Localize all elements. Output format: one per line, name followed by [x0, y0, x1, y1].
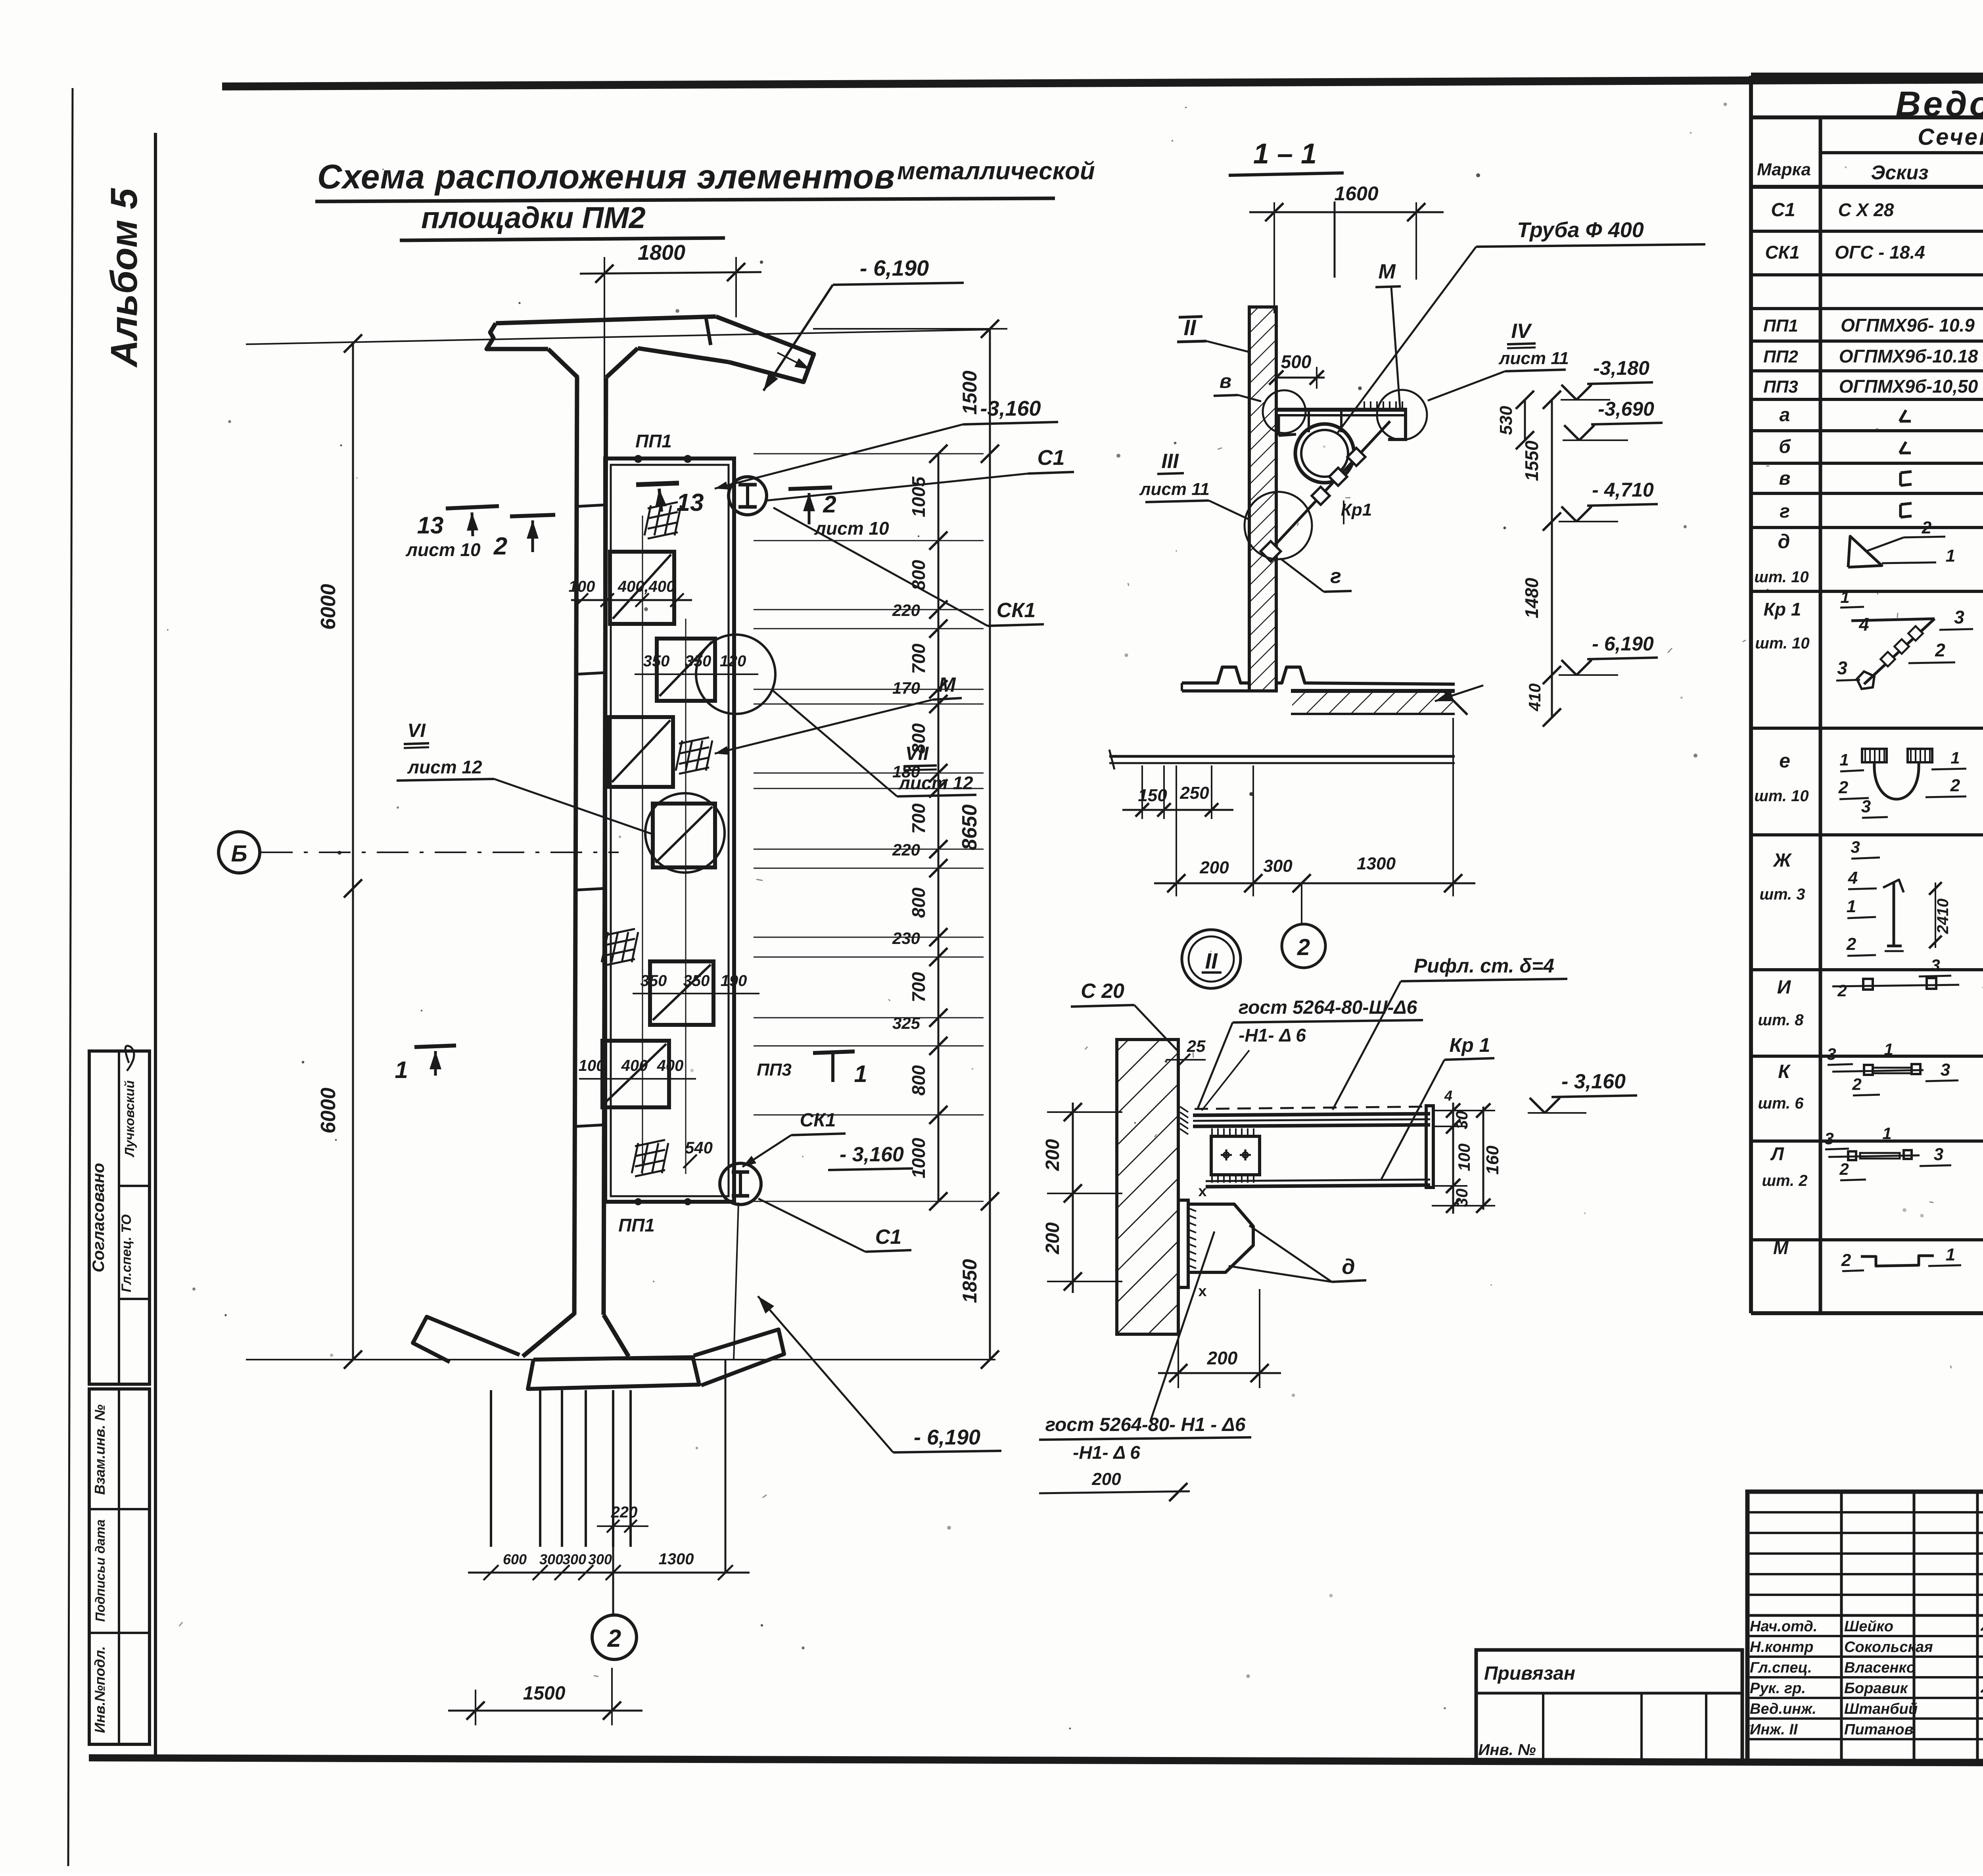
svg-text:Н.контр: Н.контр: [1750, 1639, 1813, 1655]
svg-text:1: 1: [395, 1057, 408, 1083]
beam flange below: [1206, 1180, 1430, 1181]
right outer dim chain 1500/8650/1850: [989, 329, 991, 1360]
svg-text:Власенко: Власенко: [1844, 1659, 1916, 1676]
extension from platform right edge to base: [734, 1203, 738, 1360]
section mark 2 (right, list 10): [788, 487, 832, 489]
svg-text:300: 300: [539, 1551, 563, 1567]
edge element right: [1404, 410, 1407, 440]
main stamp outline: [1747, 1492, 1983, 1761]
svg-text:И: И: [1777, 977, 1791, 998]
svg-text:2: 2: [1935, 640, 1945, 660]
beam end plate: [1426, 1106, 1433, 1187]
sheet outer edge line (left margin fold mark): [68, 88, 73, 1866]
svg-text:3: 3: [1824, 1129, 1833, 1148]
svg-text:Питанов: Питанов: [1844, 1721, 1914, 1738]
section mark 13 (inside plan): [636, 483, 679, 485]
svg-text:1300: 1300: [659, 1550, 694, 1568]
svg-text:190: 190: [721, 972, 747, 990]
dim 1500 bottom: [475, 1690, 476, 1725]
section dim chains right: [1524, 400, 1526, 440]
svg-text:350: 350: [683, 972, 710, 990]
svg-text:СК1: СК1: [1765, 242, 1799, 263]
svg-text:III: III: [1161, 450, 1179, 473]
left stamp: Soglasovano box: [89, 1051, 150, 1384]
svg-text:шт. 10: шт. 10: [1754, 787, 1808, 805]
svg-text:СК1: СК1: [800, 1110, 836, 1131]
svg-text:гост 5264-80- Н1 - Δ6: гост 5264-80- Н1 - Δ6: [1045, 1414, 1246, 1435]
svg-text:100: 100: [569, 578, 595, 595]
svg-text:160: 160: [1483, 1145, 1502, 1175]
svg-text:500: 500: [1281, 351, 1312, 372]
opening square 5: [650, 961, 713, 1025]
svg-text:120: 120: [720, 652, 746, 670]
svg-text:350: 350: [641, 972, 667, 990]
svg-text:600: 600: [503, 1551, 527, 1567]
stem splice marks: [576, 505, 605, 506]
svg-text:Альбом 5: Альбом 5: [103, 188, 145, 368]
signature rows: [1747, 1635, 1983, 1637]
pipe circle: [1295, 424, 1354, 483]
svg-text:350: 350: [643, 652, 670, 670]
dims 150 250: [1141, 765, 1143, 819]
left dim 6000: [352, 343, 354, 1360]
svg-text:1480: 1480: [1521, 577, 1542, 618]
svg-text:1: 1: [1882, 1124, 1891, 1143]
opening square 1: [610, 552, 674, 624]
svg-text:400,400: 400,400: [618, 578, 675, 595]
svg-text:2: 2: [1852, 1075, 1861, 1093]
svg-text:-3,180: -3,180: [1593, 357, 1649, 379]
svg-text:2: 2: [1922, 518, 1932, 537]
svg-text:Кр1: Кр1: [1341, 500, 1372, 520]
svg-text:ПП3: ПП3: [757, 1060, 792, 1080]
svg-text:ОГПМХ9б-10,50: ОГПМХ9б-10,50: [1839, 376, 1978, 397]
left dims 200/200: [1072, 1103, 1074, 1293]
svg-text:200: 200: [1199, 858, 1229, 877]
scan speckles: [1690, 132, 1692, 134]
svg-text:800: 800: [908, 560, 929, 590]
svg-text:2: 2: [1837, 981, 1847, 1000]
svg-text:М: М: [1773, 1237, 1789, 1258]
svg-text:1850: 1850: [959, 1259, 981, 1303]
svg-text:ПП1: ПП1: [1763, 316, 1798, 336]
svg-text:1: 1: [854, 1061, 867, 1087]
svg-text:800: 800: [908, 1065, 929, 1095]
svg-text:К: К: [1778, 1061, 1791, 1082]
svg-text:ПП1: ПП1: [635, 431, 672, 451]
svg-text:шт. 10: шт. 10: [1755, 635, 1809, 652]
svg-text:Согласовано: Согласовано: [89, 1163, 107, 1272]
svg-text:3: 3: [1931, 956, 1940, 974]
svg-text:4: 4: [1858, 614, 1869, 635]
svg-text:- 6,190: - 6,190: [1592, 633, 1654, 655]
svg-text:2: 2: [493, 533, 507, 560]
svg-text:800: 800: [908, 723, 929, 754]
svg-text:Лучковский: Лучковский: [122, 1080, 137, 1157]
svg-text:металлической: металлической: [897, 157, 1095, 185]
section mark 13 (left, list 10): [446, 506, 499, 508]
floor profile at wall base: [1182, 667, 1249, 683]
svg-text:2: 2: [1846, 934, 1856, 954]
svg-text:170: 170: [892, 679, 920, 697]
svg-text:лист 11: лист 11: [1498, 349, 1569, 368]
sketch row Zh (column): [1893, 882, 1895, 946]
svg-text:Кр 1: Кр 1: [1450, 1034, 1490, 1056]
svg-text:Схема расположения элементов: Схема расположения элементов: [317, 158, 895, 196]
sketch row K: [1832, 1070, 1924, 1072]
svg-text:Боравик: Боравик: [1844, 1680, 1908, 1697]
diagonal tie rod Kr1: [1269, 421, 1390, 551]
svg-text:325: 325: [892, 1014, 921, 1032]
sketch row Kr1: [1851, 619, 1935, 621]
svg-text:-Н1- Δ 6: -Н1- Δ 6: [1239, 1025, 1306, 1045]
right dims 30/100/30 and 160: [1452, 1103, 1454, 1214]
svg-text:220: 220: [892, 601, 920, 620]
svg-text:200: 200: [1091, 1469, 1121, 1489]
dim 1800: [604, 257, 605, 460]
svg-text:- 6,190: - 6,190: [914, 1425, 980, 1449]
svg-text:Труба Ф 400: Труба Ф 400: [1517, 218, 1644, 242]
svg-text:г: г: [1780, 501, 1790, 522]
svg-text:2: 2: [1839, 1160, 1849, 1178]
stamp verticals: [1840, 1492, 1843, 1761]
svg-text:530: 530: [1496, 406, 1516, 435]
svg-text:150: 150: [1138, 786, 1167, 805]
svg-text:6000: 6000: [317, 1088, 340, 1134]
svg-text:Кр 1: Кр 1: [1764, 599, 1801, 620]
svg-text:1: 1: [1839, 750, 1849, 769]
svg-text:лист 12: лист 12: [407, 757, 482, 777]
detail title circle II: [1182, 930, 1241, 988]
axis circle 2: [612, 1547, 614, 1615]
column head (hammerhead roof): [496, 317, 716, 323]
svg-text:шт. 2: шт. 2: [1762, 1172, 1807, 1189]
svg-text:площадки ПМ2: площадки ПМ2: [421, 201, 646, 235]
base pile lines: [490, 1390, 492, 1547]
platform plan rectangle PP1: [605, 458, 734, 1202]
wall bracket with bolts: [1211, 1136, 1260, 1175]
svg-text:3: 3: [1851, 838, 1860, 856]
sketch row L: [1828, 1155, 1920, 1157]
svg-text:1500: 1500: [959, 370, 981, 414]
svg-text:Эскиз: Эскиз: [1871, 161, 1928, 184]
sketch row d: [1848, 536, 1882, 567]
detail circles in section: [1263, 390, 1306, 433]
svg-text:II: II: [1183, 315, 1197, 340]
ground band below: [1109, 755, 1455, 758]
svg-text:540: 540: [685, 1138, 713, 1157]
svg-text:Гл.спец. ТО: Гл.спец. ТО: [119, 1214, 134, 1292]
svg-text:Взам.инв. №: Взам.инв. №: [92, 1404, 108, 1495]
svg-text:1500: 1500: [523, 1683, 566, 1704]
svg-text:Гл.спец.: Гл.спец.: [1750, 1659, 1812, 1676]
svg-text:25: 25: [1187, 1037, 1206, 1055]
column stem: [574, 377, 577, 1315]
svg-text:ОГПМХ9б-10.18: ОГПМХ9б-10.18: [1839, 346, 1978, 366]
channel glyphs rows v/g: [1899, 473, 1902, 485]
svg-text:400: 400: [657, 1057, 684, 1074]
svg-text:М: М: [1378, 260, 1396, 283]
svg-text:Марка: Марка: [1757, 160, 1811, 179]
svg-text:лист 10: лист 10: [405, 539, 481, 560]
svg-text:Штанбий: Штанбий: [1844, 1701, 1918, 1717]
sketch row M: [1861, 1256, 1934, 1266]
svg-text:100: 100: [1455, 1143, 1473, 1171]
svg-text:3: 3: [1827, 1045, 1836, 1063]
svg-text:С1: С1: [1037, 446, 1064, 470]
svg-text:3: 3: [1837, 658, 1847, 678]
svg-text:1: 1: [1840, 588, 1849, 606]
dims 200 300 1300 below section: [1176, 765, 1177, 896]
svg-text:13: 13: [417, 512, 444, 539]
svg-text:Сокольская: Сокольская: [1844, 1639, 1933, 1655]
floor slab right of wall (hatched): [1291, 689, 1455, 693]
svg-text:Инж. II: Инж. II: [1750, 1721, 1798, 1738]
svg-text:С1: С1: [875, 1226, 901, 1249]
svg-text:х: х: [1198, 1183, 1206, 1200]
svg-text:Рифл. ст. δ=4: Рифл. ст. δ=4: [1414, 955, 1554, 977]
svg-text:х: х: [1198, 1283, 1206, 1300]
svg-text:в: в: [1779, 468, 1791, 489]
svg-text:- 6,190: - 6,190: [860, 255, 929, 280]
bottom dim chain 600 300 300 300 1300: [468, 1572, 750, 1574]
opening square 3: [609, 717, 673, 787]
svg-text:шт. 10: шт. 10: [1754, 568, 1808, 586]
svg-text:- 3,160: - 3,160: [840, 1143, 904, 1166]
svg-text:3: 3: [1941, 1060, 1950, 1080]
svg-text:1 – 1: 1 – 1: [1253, 138, 1317, 170]
svg-text:200: 200: [1042, 1139, 1063, 1171]
connection circle C1 bottom: [720, 1163, 761, 1205]
section mark 2 (left): [510, 515, 555, 516]
svg-text:1300: 1300: [1357, 854, 1396, 873]
svg-text:220: 220: [611, 1504, 638, 1521]
svg-text:д: д: [1778, 530, 1790, 552]
svg-text:800: 800: [908, 887, 929, 918]
section mark 1 (right bottom): [813, 1051, 855, 1053]
svg-text:шт. 6: шт. 6: [1758, 1095, 1804, 1112]
svg-text:180: 180: [892, 762, 920, 781]
svg-text:2: 2: [1838, 778, 1849, 797]
platform plate: [1276, 408, 1407, 412]
grating ticks: [1364, 401, 1365, 410]
svg-text:Л: Л: [1770, 1143, 1784, 1164]
svg-text:Б: Б: [231, 841, 247, 867]
lower angle bracket: [1178, 1200, 1188, 1287]
bottom dim 200: [1178, 1334, 1179, 1388]
connection circle C1 top: [729, 477, 767, 515]
platform plate stack: [1195, 1107, 1430, 1109]
svg-text:200: 200: [1207, 1348, 1238, 1368]
opening square 4 with detail circle VI: [653, 804, 715, 867]
left stamp: inventory box: [89, 1389, 150, 1744]
opening square 6: [602, 1041, 669, 1107]
table outer borders: [1751, 73, 1983, 79]
svg-text:1: 1: [1950, 748, 1960, 767]
svg-text:С 20: С 20: [1081, 980, 1124, 1003]
svg-text:- 3,160: - 3,160: [1561, 1070, 1626, 1093]
svg-text:1005: 1005: [908, 476, 929, 517]
svg-text:4: 4: [1444, 1088, 1452, 1104]
svg-text:Рук. гр.: Рук. гр.: [1750, 1680, 1806, 1697]
svg-text:1: 1: [1946, 546, 1955, 566]
svg-text:IV: IV: [1511, 320, 1532, 343]
section mark 1 (left bottom): [414, 1045, 456, 1047]
column base funnel: [523, 1314, 574, 1356]
concrete wall (hatched): [1249, 307, 1276, 691]
plan centerlines: [642, 516, 643, 1174]
svg-text:С Х 28: С Х 28: [1838, 199, 1894, 220]
svg-text:ПП2: ПП2: [1763, 347, 1798, 366]
svg-text:Подписьи дата: Подписьи дата: [93, 1519, 107, 1622]
svg-text:Шейко: Шейко: [1844, 1618, 1893, 1635]
svg-text:2: 2: [1950, 776, 1960, 795]
svg-text:300: 300: [588, 1551, 612, 1567]
svg-text:1550: 1550: [1521, 440, 1542, 481]
svg-text:4: 4: [1848, 868, 1858, 888]
svg-text:ПП1: ПП1: [618, 1215, 655, 1235]
svg-text:Привязан: Привязан: [1484, 1663, 1575, 1684]
svg-text:а: а: [1780, 405, 1790, 426]
svg-text:1: 1: [1884, 1040, 1893, 1059]
header row lines: [1820, 151, 1983, 154]
pipe stand: [1308, 410, 1310, 432]
svg-text:СК1: СК1: [997, 599, 1036, 622]
svg-text:Инв. №: Инв. №: [1478, 1741, 1536, 1759]
svg-text:2: 2: [607, 1625, 621, 1652]
svg-text:VI: VI: [407, 720, 426, 741]
svg-text:700: 700: [908, 972, 929, 1002]
svg-text:Ж: Ж: [1772, 850, 1792, 871]
svg-text:13: 13: [677, 489, 704, 516]
svg-text:Вед.инж.: Вед.инж.: [1750, 1701, 1816, 1717]
svg-text:ОГС - 18.4: ОГС - 18.4: [1835, 242, 1925, 263]
svg-text:II: II: [1205, 948, 1218, 973]
svg-text:700: 700: [908, 803, 929, 834]
svg-text:400: 400: [621, 1057, 648, 1074]
svg-text:1: 1: [1847, 897, 1856, 916]
svg-text:700: 700: [908, 643, 929, 674]
svg-text:С1: С1: [1771, 199, 1795, 221]
drawing frame border: [222, 77, 1983, 86]
svg-text:8650: 8650: [958, 804, 981, 850]
angle bracket at wall under plate: [1277, 415, 1280, 435]
svg-text:220: 220: [892, 840, 920, 859]
table group row lines: [1751, 230, 1983, 233]
svg-text:б: б: [1779, 436, 1791, 457]
svg-text:2: 2: [1841, 1251, 1851, 1270]
base level extension line: [246, 1359, 995, 1360]
svg-text:100: 100: [579, 1057, 605, 1074]
svg-text:3: 3: [1954, 607, 1964, 627]
top level line through head: [246, 330, 990, 344]
svg-text:300: 300: [562, 1551, 586, 1567]
svg-text:1600: 1600: [1334, 182, 1378, 205]
svg-text:410: 410: [1525, 683, 1544, 712]
svg-text:шт. 3: шт. 3: [1759, 886, 1805, 903]
svg-text:-3,690: -3,690: [1598, 398, 1654, 420]
svg-text:3: 3: [1934, 1145, 1943, 1164]
column lines: [1819, 117, 1822, 1313]
weld marks at wall face: [1180, 1107, 1188, 1112]
right inner dim chain (8650 parts): [938, 454, 940, 1201]
svg-text:шт. 8: шт. 8: [1758, 1011, 1804, 1029]
axis circle 2 small: [1282, 924, 1325, 968]
svg-text:Сечение: Сечение: [1918, 124, 1983, 150]
svg-text:200: 200: [1042, 1222, 1063, 1255]
svg-text:г: г: [1330, 565, 1341, 588]
svg-text:Нач.отд.: Нач.отд.: [1750, 1618, 1817, 1635]
svg-text:Инв.№подл.: Инв.№подл.: [92, 1646, 108, 1733]
svg-text:ПП3: ПП3: [1763, 377, 1798, 397]
svg-text:в: в: [1220, 370, 1231, 392]
svg-text:е: е: [1779, 750, 1790, 772]
axis B circle: [219, 832, 260, 873]
svg-text:-Н1- Δ 6: -Н1- Δ 6: [1073, 1442, 1140, 1463]
svg-text:2410: 2410: [1934, 899, 1952, 934]
angle glyphs rows a/b: [1900, 410, 1906, 421]
sketch row I: [1832, 985, 1959, 986]
detail circle VII on edge: [696, 635, 775, 714]
svg-text:250: 250: [1179, 783, 1209, 803]
svg-text:230: 230: [892, 929, 920, 948]
svg-text:6000: 6000: [317, 584, 340, 630]
svg-text:300: 300: [1263, 856, 1293, 876]
svg-text:ОГПМХ9б- 10.9: ОГПМХ9б- 10.9: [1841, 315, 1975, 336]
svg-text:30: 30: [1452, 1189, 1471, 1207]
concrete wall (hatched): [1117, 1040, 1178, 1334]
svg-text:1000: 1000: [908, 1137, 929, 1178]
svg-text:1800: 1800: [638, 241, 685, 265]
grate hatch symbols: [648, 502, 678, 508]
svg-text:лист 11: лист 11: [1139, 480, 1210, 499]
sketch row e (U-bolt): [1862, 749, 1887, 762]
svg-text:2: 2: [1297, 934, 1310, 960]
svg-text:д: д: [1342, 1255, 1355, 1279]
svg-text:- 4,710: - 4,710: [1592, 479, 1654, 501]
dim 1600: [1273, 202, 1275, 313]
svg-text:3: 3: [1861, 797, 1871, 816]
privyazan box: [1476, 1650, 1742, 1761]
opening square 2: [657, 639, 715, 701]
stamp thin revision rows: [1747, 1511, 1983, 1513]
svg-text:1: 1: [1946, 1245, 1955, 1264]
